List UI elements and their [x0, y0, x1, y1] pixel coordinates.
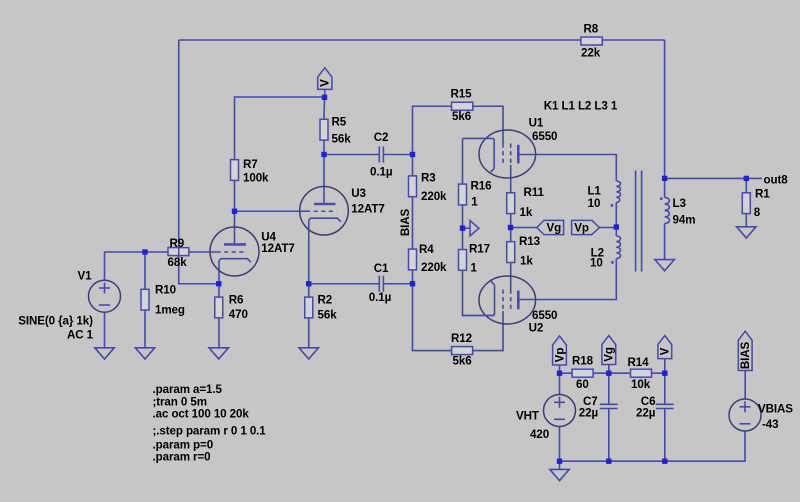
- svg-text:.param r=0: .param r=0: [153, 450, 211, 463]
- svg-text:R3: R3: [421, 172, 436, 185]
- svg-text:R2: R2: [318, 294, 333, 307]
- svg-text:R7: R7: [243, 158, 258, 171]
- svg-text:10k: 10k: [631, 378, 651, 391]
- svg-text:1meg: 1meg: [155, 304, 185, 317]
- svg-text:VHT: VHT: [516, 410, 539, 423]
- svg-text:C1: C1: [374, 262, 389, 275]
- svg-text:220k: 220k: [421, 190, 447, 203]
- svg-text:60: 60: [576, 378, 589, 391]
- svg-text:22µ: 22µ: [636, 407, 655, 420]
- svg-text:22k: 22k: [581, 47, 601, 60]
- svg-text:6550: 6550: [532, 130, 557, 143]
- svg-text:R9: R9: [170, 237, 185, 250]
- svg-text:K1 L1 L2 L3 1: K1 L1 L2 L3 1: [544, 100, 618, 113]
- svg-text:.param a=1.5: .param a=1.5: [153, 383, 223, 396]
- svg-text:R14: R14: [628, 356, 650, 369]
- svg-text:470: 470: [229, 308, 248, 321]
- svg-text:5k6: 5k6: [452, 110, 472, 123]
- svg-text:L1: L1: [587, 185, 601, 198]
- svg-text:AC 1: AC 1: [67, 328, 94, 341]
- svg-text:R16: R16: [471, 180, 493, 193]
- svg-text:0.1µ: 0.1µ: [369, 291, 391, 304]
- svg-text:420: 420: [530, 428, 549, 441]
- svg-text:BIAS: BIAS: [739, 341, 752, 369]
- svg-text:Vg: Vg: [603, 347, 616, 362]
- svg-text:68k: 68k: [168, 256, 188, 269]
- svg-text:C2: C2: [374, 131, 389, 144]
- svg-text:.param p=0: .param p=0: [153, 438, 214, 451]
- svg-text:R10: R10: [155, 284, 176, 297]
- svg-text:-43: -43: [762, 418, 779, 431]
- svg-text:U3: U3: [351, 187, 366, 200]
- svg-text:;.step param r 0 1 0.1: ;.step param r 0 1 0.1: [153, 424, 267, 437]
- svg-text:R4: R4: [419, 243, 434, 256]
- svg-text:0.1µ: 0.1µ: [370, 166, 392, 179]
- svg-text:Vp: Vp: [553, 348, 566, 363]
- svg-text:22µ: 22µ: [579, 407, 598, 420]
- svg-text:Vp: Vp: [574, 222, 589, 235]
- svg-text:10: 10: [590, 257, 603, 270]
- svg-text:R15: R15: [451, 87, 473, 100]
- svg-text:5k6: 5k6: [453, 354, 473, 367]
- svg-text:1: 1: [471, 195, 478, 208]
- svg-text:6550: 6550: [532, 309, 557, 322]
- svg-text:R6: R6: [229, 294, 244, 307]
- svg-text:out8: out8: [764, 173, 789, 186]
- svg-text:R5: R5: [332, 116, 347, 129]
- svg-text:1: 1: [471, 262, 478, 275]
- svg-text:R12: R12: [451, 332, 472, 345]
- svg-text:R8: R8: [584, 23, 599, 36]
- svg-text:V: V: [319, 79, 332, 87]
- svg-text:Vg: Vg: [546, 222, 561, 235]
- svg-text:SINE(0 {a} 1k): SINE(0 {a} 1k): [18, 314, 93, 327]
- svg-text:94m: 94m: [673, 214, 696, 227]
- svg-text:12AT7: 12AT7: [351, 203, 384, 216]
- svg-text:R18: R18: [572, 355, 594, 368]
- svg-text:10: 10: [588, 197, 601, 210]
- svg-text:8: 8: [754, 206, 761, 219]
- svg-text:100k: 100k: [243, 172, 269, 185]
- svg-text:12AT7: 12AT7: [261, 242, 294, 255]
- svg-text:R17: R17: [469, 243, 490, 256]
- svg-text:U2: U2: [529, 322, 544, 335]
- svg-text:L3: L3: [673, 197, 687, 210]
- svg-text:R13: R13: [519, 235, 541, 248]
- svg-text:1k: 1k: [520, 255, 533, 268]
- svg-text:VBIAS: VBIAS: [758, 403, 793, 416]
- svg-text:1k: 1k: [520, 206, 533, 219]
- svg-text:56k: 56k: [332, 132, 352, 145]
- svg-text:220k: 220k: [421, 261, 447, 274]
- svg-text:.ac oct 100 10 20k: .ac oct 100 10 20k: [153, 407, 250, 420]
- svg-text:V: V: [659, 347, 672, 355]
- svg-text:V1: V1: [78, 270, 93, 283]
- svg-text:BIAS: BIAS: [399, 208, 412, 236]
- svg-text:R11: R11: [524, 186, 545, 199]
- svg-text:R1: R1: [755, 187, 770, 200]
- svg-text:56k: 56k: [318, 309, 338, 322]
- svg-text:U1: U1: [529, 116, 544, 129]
